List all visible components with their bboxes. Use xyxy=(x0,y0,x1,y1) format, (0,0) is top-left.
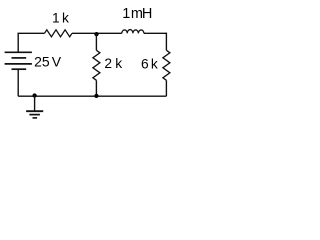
wire: right vertical bottom lead of 6 k xyxy=(165,80,167,96)
wire: battery top lead up and top-left horizontal run xyxy=(18,33,44,52)
ground bar 2 xyxy=(29,114,40,116)
wire: top right segment from L1 to corner xyxy=(144,32,167,34)
wire: ground stub xyxy=(34,96,36,111)
svg-text:25V: 25V xyxy=(34,53,62,69)
node B junction dot (2 k bottom) xyxy=(94,94,98,98)
svg-text:1mH: 1mH xyxy=(122,6,152,22)
resistor R3 6 k (vertical zigzag) xyxy=(163,50,170,80)
node G junction dot (ground tap) xyxy=(32,93,36,97)
wire: right vertical top lead of 6 k xyxy=(165,33,167,51)
wire: top middle segment from R1 to L1 xyxy=(72,32,122,34)
resistor R2 2 k (vertical zigzag) xyxy=(93,50,100,80)
node A junction dot (top of 2 k) xyxy=(94,32,98,36)
resistor R1 1 k (horizontal zigzag) xyxy=(45,30,73,37)
inductor L1 1 mH (4 humps) xyxy=(122,30,144,34)
wire: 2 k top lead from node A xyxy=(95,34,97,50)
battery V1 plate 2 (short) xyxy=(12,57,27,59)
wire: bottom horizontal run xyxy=(18,95,166,97)
wire: battery bottom lead xyxy=(17,69,19,96)
battery V1 plate 3 (long) xyxy=(5,63,32,65)
ground bar 1 xyxy=(26,110,43,112)
battery V1 plate 1 (long) xyxy=(5,51,32,53)
battery V1 plate 4 (short) xyxy=(12,68,27,70)
ground bar 3 xyxy=(33,117,38,119)
wire: 2 k bottom lead xyxy=(95,80,97,96)
